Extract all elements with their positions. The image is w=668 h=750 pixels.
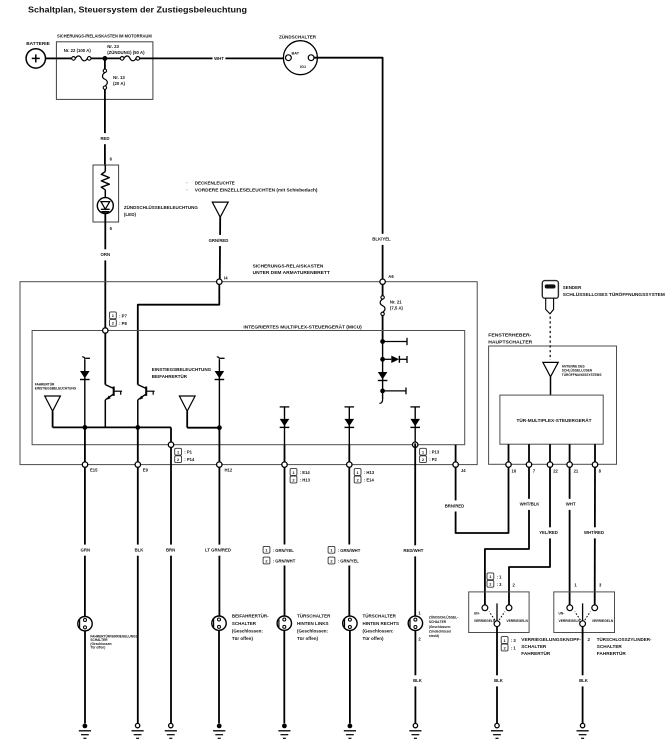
svg-text:SCHLÜSSELLOSES TÜRÖFFNUNGSSYST: SCHLÜSSELLOSES TÜRÖFFNUNGSSYSTEM — [563, 291, 665, 297]
svg-text:(ZÜNDUNG) (50 A): (ZÜNDUNG) (50 A) — [107, 50, 145, 55]
svg-text:BRN: BRN — [166, 548, 175, 553]
svg-text:UN-: UN- — [559, 612, 565, 616]
ground G7 — [413, 723, 417, 727]
junction dot D1/E15 — [83, 425, 88, 430]
svg-text:IG1: IG1 — [300, 65, 306, 69]
wire pin21 — [569, 444, 571, 464]
wire IG1 to A6, BLK/YEL — [314, 58, 383, 279]
svg-text:HINTEN LINKS: HINTEN LINKS — [297, 621, 329, 626]
svg-text:SCHALTER: SCHALTER — [521, 644, 547, 649]
svg-text:Zündschlüssel: Zündschlüssel — [429, 629, 451, 633]
internal branch with bar — [380, 389, 385, 394]
wire pin16 — [508, 444, 510, 464]
transistor Q1 — [105, 385, 113, 389]
node pin21 — [567, 462, 572, 467]
svg-text:steckt): steckt) — [429, 634, 439, 638]
LED ZUENDSCHLUESSELBELEUCHTUNG — [97, 198, 113, 214]
svg-text:HINTEN RECHTS: HINTEN RECHTS — [363, 621, 400, 626]
svg-text:(Geschlossen:: (Geschlossen: — [297, 628, 329, 633]
dashed radio link — [549, 317, 551, 361]
wire fuse22 to fuse23 — [91, 57, 120, 59]
svg-text:: P7: : P7 — [119, 313, 127, 318]
svg-text:WHT/RED: WHT/RED — [584, 530, 604, 535]
lock knob switch contacts — [482, 605, 488, 611]
svg-text:J4: J4 — [461, 468, 466, 473]
node pin8 — [592, 462, 597, 467]
wire ORN from key light to MICU P7/P8 — [104, 214, 106, 328]
wire pin22 — [549, 444, 551, 464]
node H13/E14 — [347, 462, 352, 467]
svg-text:BLK/YEL: BLK/YEL — [372, 237, 391, 242]
wire YEL/RED pin22 to lock knob switch — [509, 467, 550, 605]
svg-text:ZÜNDSCHLÜSSEL-: ZÜNDSCHLÜSSEL- — [429, 615, 458, 620]
svg-text:(Geschlossen:: (Geschlossen: — [429, 625, 451, 629]
svg-text:E9: E9 — [143, 468, 149, 473]
wire WHT/BLK pin7 to lock knob switch — [485, 467, 529, 605]
door switch rear right — [343, 616, 357, 630]
wire BRN/RED J4 to pin16 — [456, 467, 509, 533]
lock knob switch box — [469, 592, 529, 633]
svg-text:H12: H12 — [225, 468, 233, 473]
rail corner down to P1/P14 node — [170, 427, 172, 443]
svg-text:: GRN/YEL: : GRN/YEL — [273, 548, 295, 553]
ground G8 — [495, 723, 499, 727]
svg-text:FAHRERTÜR: FAHRERTÜR — [521, 650, 551, 656]
svg-text:TÜRSCHALTER: TÜRSCHALTER — [297, 612, 331, 618]
node H12 — [217, 462, 222, 467]
diode D1 — [82, 357, 85, 360]
node P7/P8 on MICU top edge — [103, 328, 108, 333]
svg-text:ZÜNDSCHALTER: ZÜNDSCHALTER — [279, 34, 317, 40]
svg-text:: GRN/WHT: : GRN/WHT — [273, 559, 296, 564]
wire RED/WHT down to key switch — [414, 443, 416, 616]
wire pin8 — [594, 444, 596, 464]
connector pins 1:P1 2:P14 — [175, 448, 182, 455]
svg-text:SCHALTER: SCHALTER — [429, 620, 447, 624]
svg-text:SICHERUNGS-RELAISKASTEN: SICHERUNGS-RELAISKASTEN — [253, 263, 325, 268]
svg-text:22: 22 — [553, 468, 558, 473]
keyless transmitter SENDER — [542, 281, 558, 299]
svg-text:UN-: UN- — [474, 612, 480, 616]
junction node main feed — [103, 56, 108, 61]
node pin16 — [506, 462, 511, 467]
ground G5 — [282, 724, 287, 729]
svg-text:BRN/RED: BRN/RED — [445, 503, 465, 508]
svg-text:Nr. 21: Nr. 21 — [390, 299, 402, 304]
svg-text:TÜRSCHLOSSZYLINDER-: TÜRSCHLOSSZYLINDER- — [597, 636, 652, 642]
wire lock knob switch to ground BLK — [496, 627, 498, 724]
svg-text:: 3: : 3 — [497, 582, 503, 587]
svg-text:: H13: : H13 — [364, 470, 375, 475]
door multiplex control unit box — [500, 395, 603, 444]
diode D5 — [410, 406, 420, 408]
wire E15 down — [84, 427, 86, 616]
svg-text:FENSTERHEBER-: FENSTERHEBER- — [488, 332, 532, 337]
wire E14/H13 down — [284, 445, 286, 616]
passenger door light driver triangle — [179, 396, 195, 411]
svg-text:LT GRN/RED: LT GRN/RED — [205, 548, 231, 553]
connector pins 1:P7 2:P8 — [110, 312, 117, 319]
svg-text:SCHALTER: SCHALTER — [597, 644, 623, 649]
svg-text:: GRN/YEL: : GRN/YEL — [338, 559, 360, 564]
wire from A6 to fuse Nr.21 — [382, 284, 384, 296]
svg-text:: H13: : H13 — [300, 478, 311, 483]
antenna keyless entry — [543, 362, 558, 376]
svg-text:: 1: : 1 — [497, 574, 503, 579]
wire J4 from MICU bottom — [455, 445, 457, 462]
svg-text:E15: E15 — [90, 468, 98, 473]
diode D4 — [345, 406, 355, 408]
svg-text:WHT/BLK: WHT/BLK — [520, 502, 541, 507]
svg-text:FAHRERTÜR: FAHRERTÜR — [597, 650, 627, 656]
svg-text:BEIFAHRERTÜR-: BEIFAHRERTÜR- — [232, 612, 269, 618]
wire RED from fuse13 to key light — [104, 89, 106, 164]
svg-text:SCHLÜSSELLOSEN: SCHLÜSSELLOSEN — [562, 368, 593, 373]
svg-text:Nr. 13: Nr. 13 — [113, 75, 125, 80]
svg-text:ORN: ORN — [101, 252, 111, 257]
svg-text:WHT: WHT — [566, 502, 576, 507]
door switch passenger — [212, 616, 226, 630]
rail passenger section — [187, 427, 219, 429]
svg-text:: E14: : E14 — [300, 470, 311, 475]
junction dot D2/H12 — [217, 425, 222, 430]
svg-text:SENDER: SENDER — [563, 285, 582, 290]
svg-text:Nr. 23: Nr. 23 — [107, 44, 119, 49]
node E15 — [82, 462, 87, 467]
wire to fuse Nr.22 — [56, 57, 71, 59]
svg-text:BEIFAHRERTÜR: BEIFAHRERTÜR — [152, 373, 188, 379]
svg-text:YEL/RED: YEL/RED — [539, 530, 558, 535]
wire S5 to ground BLK — [414, 631, 416, 724]
ground G1 — [83, 724, 88, 729]
svg-text:VERRIEGELUNGSKNOPF-: VERRIEGELUNGSKNOPF- — [521, 637, 581, 642]
door switch rear left — [277, 616, 291, 630]
wire S3 to ground — [283, 630, 285, 723]
svg-text:EINSTIEGSBELEUCHTUNG: EINSTIEGSBELEUCHTUNG — [35, 387, 77, 391]
wire lock cylinder switch to ground BLK — [582, 627, 584, 724]
svg-text:(20 A): (20 A) — [113, 81, 125, 86]
svg-text:: P13: : P13 — [429, 450, 440, 455]
svg-text:Tür offen): Tür offen) — [90, 646, 105, 650]
wire ORN inside MICU to T1 collector — [104, 333, 106, 385]
svg-text:TÜRÖFFNUNGSSYSTEMS: TÜRÖFFNUNGSSYSTEMS — [562, 372, 602, 377]
svg-text:INTEGRIERTES MULTIPLEX-STEUERG: INTEGRIERTES MULTIPLEX-STEUERGERÄT (MICU… — [243, 323, 362, 329]
svg-text:RED: RED — [100, 136, 109, 141]
svg-text:: P14: : P14 — [184, 457, 195, 462]
internal hook end — [382, 391, 384, 399]
ignition key switch — [408, 616, 422, 630]
wire S4 to ground — [349, 631, 351, 724]
node E9 — [135, 462, 140, 467]
wire triangle2 down — [186, 411, 188, 428]
svg-text:Tür offen): Tür offen) — [297, 636, 318, 641]
node J4 — [453, 462, 458, 467]
door switch driver lock — [78, 617, 92, 631]
node pin22 — [547, 462, 552, 467]
wire E9 down — [137, 427, 139, 723]
svg-text:(Geschlossen:: (Geschlossen: — [363, 628, 395, 633]
svg-text:Tür offen): Tür offen) — [232, 636, 253, 641]
diode D2 — [217, 357, 220, 360]
svg-text:·: · — [186, 181, 188, 186]
svg-text:21: 21 — [574, 468, 579, 473]
svg-text:Tür offen): Tür offen) — [363, 636, 384, 641]
emitter rail left — [53, 426, 171, 428]
svg-text:VERRIEGELN: VERRIEGELN — [559, 619, 581, 623]
svg-text:VORDERE EINZELLESELEUCHTEN (mi: VORDERE EINZELLESELEUCHTEN (mit Schiebed… — [195, 188, 318, 193]
wire WHT/RED pin8 to lock cylinder switch — [594, 467, 596, 605]
svg-text:HAUPTSCHALTER: HAUPTSCHALTER — [488, 339, 533, 344]
node pin7 — [526, 462, 531, 467]
ground G2 — [135, 723, 139, 727]
connector tags 1:GRN/YEL 2:GRN/WHT — [272, 545, 299, 566]
diode D3 — [280, 406, 290, 408]
wire triangle1 to emitter rail — [52, 411, 54, 427]
node P1/P14 on MICU bottom edge — [168, 442, 173, 447]
svg-text:: 3: : 3 — [511, 638, 517, 643]
junction dot Q2/E9 — [135, 425, 140, 430]
svg-text:FAHRERTÜR: FAHRERTÜR — [35, 381, 55, 386]
node E14/H13 — [282, 462, 287, 467]
svg-text:VERRIEGELN: VERRIEGELN — [474, 619, 496, 623]
node A6 — [380, 279, 385, 284]
svg-text:BATTERIE: BATTERIE — [26, 41, 50, 47]
svg-text:TÜR-MULTIPLEX-STEUERGERÄT: TÜR-MULTIPLEX-STEUERGERÄT — [517, 417, 592, 423]
resistor in key light — [104, 165, 106, 172]
ground G6 — [348, 724, 353, 729]
ignition key light unit box — [93, 165, 119, 222]
transistor Q2 — [138, 385, 146, 389]
wire WHT pin21 to lock cylinder switch — [569, 467, 571, 605]
svg-text:16: 16 — [512, 468, 517, 473]
svg-text:(7,5 A): (7,5 A) — [390, 306, 404, 311]
window master switch box — [489, 346, 617, 464]
lock cylinder switch box — [554, 592, 615, 633]
diode D6 to internal bar — [380, 357, 385, 362]
wire fuse21 into MICU — [382, 316, 384, 342]
ground G3 — [169, 723, 173, 727]
svg-text:(LED): (LED) — [124, 212, 137, 217]
connector tags 1:GRN/WHT 2:GRN/YEL — [337, 545, 364, 566]
wire from I4 jog to transistor T2 — [138, 284, 220, 384]
svg-text:: P1: : P1 — [184, 450, 192, 455]
wire S2 to ground — [218, 630, 220, 723]
svg-text:: GRN/WHT: : GRN/WHT — [338, 548, 361, 553]
connector tags lock knob switch top — [487, 573, 494, 580]
svg-text:A6: A6 — [388, 274, 394, 279]
internal bus branches right section — [380, 339, 385, 344]
svg-text:ZÜNDSCHLÜSSELBELEUCHTUNG: ZÜNDSCHLÜSSELBELEUCHTUNG — [124, 204, 198, 210]
svg-text:: P8: : P8 — [119, 321, 127, 326]
svg-text:VERRIEGELN: VERRIEGELN — [592, 619, 614, 623]
svg-text:BAT: BAT — [292, 52, 300, 56]
svg-text:UNTER DEM ARMATURENBRETT: UNTER DEM ARMATURENBRETT — [253, 270, 330, 275]
svg-text:BLK: BLK — [494, 678, 504, 683]
svg-text:SICHERUNGS-/RELAISKASTEN IM MO: SICHERUNGS-/RELAISKASTEN IM MOTORRAUM — [57, 34, 152, 39]
svg-text:Schaltplan, Steuersystem der Z: Schaltplan, Steuersystem der Zustiegsbel… — [28, 4, 247, 14]
wire H12 down — [218, 428, 220, 616]
svg-text:SCHALTER: SCHALTER — [232, 621, 257, 626]
svg-text:(Geschlossen:: (Geschlossen: — [232, 628, 264, 633]
svg-text:GRN: GRN — [81, 548, 91, 553]
svg-text:VERRIEGELN: VERRIEGELN — [506, 619, 528, 623]
svg-text:BLK: BLK — [579, 678, 589, 683]
svg-text:Nr. 22 (100 A): Nr. 22 (100 A) — [64, 48, 92, 53]
svg-text:: E14: : E14 — [364, 478, 375, 483]
wire down from junction to fuse Nr.13 — [104, 58, 106, 69]
diode D7 down on A6 line — [382, 342, 384, 373]
ground G4 — [217, 724, 222, 729]
svg-text:: 1: : 1 — [511, 646, 517, 651]
connector tags below lock knob switch — [501, 637, 508, 644]
connector pins 1:P13 2:P2 — [420, 448, 427, 455]
svg-text:: P2: : P2 — [429, 457, 437, 462]
svg-text:BLK: BLK — [413, 678, 423, 683]
svg-text:WHT: WHT — [214, 56, 224, 61]
wire S1 to ground — [84, 631, 86, 723]
wire GRN/RED to node I4 — [219, 217, 221, 279]
svg-text:GRN/RED: GRN/RED — [209, 238, 229, 243]
svg-text:BLK: BLK — [135, 548, 145, 553]
wire fuse23 to ignition switch, WHT — [140, 57, 286, 59]
wire antenna to door multiplex unit — [550, 377, 552, 395]
svg-text:·: · — [186, 189, 188, 194]
node I4 — [217, 279, 222, 284]
lock cylinder switch contacts — [567, 605, 573, 611]
svg-text:RED/WHT: RED/WHT — [403, 548, 423, 553]
wire BRN through to ground — [170, 447, 172, 723]
svg-text:TÜRSCHALTER: TÜRSCHALTER — [363, 612, 397, 618]
wire battery to fuse box — [46, 57, 57, 59]
driver door light driver triangle — [45, 396, 61, 411]
wire pin7 — [528, 444, 530, 464]
ground G9 — [580, 723, 584, 727]
wire H13/E14 down — [348, 445, 350, 616]
arrow from interior lights GRN/RED — [212, 202, 228, 217]
svg-text:EINSTIEGSBELEUCHTUNG: EINSTIEGSBELEUCHTUNG — [152, 367, 212, 372]
node P13 on MICU bottom edge — [413, 442, 418, 447]
svg-text:DECKENLEUCHTE: DECKENLEUCHTE — [195, 180, 235, 185]
